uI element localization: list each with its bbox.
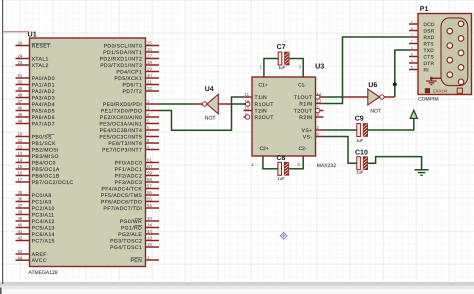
U1 left pin PA7/AD7, pin 44 xyxy=(16,119,55,128)
svg-text:PD5/XCK1: PD5/XCK1 xyxy=(114,76,142,82)
svg-text:PB3/MISO: PB3/MISO xyxy=(32,154,59,160)
svg-text:U3: U3 xyxy=(315,62,324,71)
svg-text:48: 48 xyxy=(17,93,22,98)
svg-text:XTAL1: XTAL1 xyxy=(32,56,49,62)
svg-text:1uF: 1uF xyxy=(356,169,363,174)
svg-text:8: 8 xyxy=(411,53,413,57)
svg-text:PC6/A14: PC6/A14 xyxy=(32,232,55,238)
U3 pin T2OUT, pin 7, inverted bubble xyxy=(294,106,324,115)
U1 right pin PF5/ADC5/TMS, pin 56 xyxy=(101,190,159,199)
svg-text:1uF: 1uF xyxy=(278,176,285,181)
U1 left pin PC2/A10, pin 37 xyxy=(16,203,55,212)
svg-text:55: 55 xyxy=(147,197,152,202)
U1 right pin PEN, pin 1 xyxy=(131,255,159,264)
node origin marker xyxy=(280,232,287,239)
svg-text:PB2/MOSI: PB2/MOSI xyxy=(32,147,59,153)
U1 left pin PA6/AD6, pin 45 xyxy=(16,112,55,121)
svg-text:PC4/A12: PC4/A12 xyxy=(32,219,55,225)
U1 right pin PD2/RXD1/INT2, pin 27 xyxy=(100,54,159,63)
U1 right pin PE7/ICP3/INT7, pin 9 xyxy=(102,145,159,154)
svg-text:26: 26 xyxy=(147,47,152,52)
svg-text:PA5/AD5: PA5/AD5 xyxy=(32,108,55,114)
svg-text:64: 64 xyxy=(17,255,22,260)
U3 pin T2IN, pin 10 xyxy=(244,106,268,115)
svg-text:C8: C8 xyxy=(276,155,285,162)
svg-text:34: 34 xyxy=(147,223,152,228)
wire artifact top-left xyxy=(3,31,29,33)
svg-text:24: 24 xyxy=(17,54,22,59)
svg-text:PE7/ICP3/INT7: PE7/ICP3/INT7 xyxy=(102,147,142,153)
wire U6 output to P1 TXD xyxy=(384,50,409,97)
U1 left pin PA0/AD0, pin 51 xyxy=(16,73,55,82)
capacitor C9 1uF xyxy=(355,116,368,143)
U1 right pin PE1/TXD0/PDO, pin 3 xyxy=(101,106,159,115)
svg-text:PF5/ADC5/TMS: PF5/ADC5/TMS xyxy=(101,193,143,199)
U1 left pin PB3/MISO, pin 13 xyxy=(16,151,59,160)
wire C8 to C2- xyxy=(289,168,304,170)
U1 right pin PE3/OC3A/AIN1, pin 5 xyxy=(99,119,159,128)
ground symbol right xyxy=(415,170,429,176)
svg-text:R2OUT: R2OUT xyxy=(255,115,274,121)
U3 pin VS-, pin 6 xyxy=(303,132,324,141)
svg-text:R1IN: R1IN xyxy=(299,101,312,107)
svg-text:PC3/A11: PC3/A11 xyxy=(32,212,55,218)
svg-text:U6: U6 xyxy=(368,82,377,89)
svg-text:PE3/OC3A/AIN1: PE3/OC3A/AIN1 xyxy=(99,121,142,127)
U1 right pin PD1/SDA/INT1, pin 26 xyxy=(103,47,159,56)
svg-text:54: 54 xyxy=(147,203,152,208)
svg-text:51: 51 xyxy=(17,73,22,78)
svg-text:10: 10 xyxy=(17,132,22,137)
capacitor C10 1uF xyxy=(355,150,368,175)
svg-text:PE4/OC3B/INT4: PE4/OC3B/INT4 xyxy=(100,128,143,134)
svg-text:19: 19 xyxy=(147,242,152,247)
svg-text:T1IN: T1IN xyxy=(255,95,268,101)
U1 left pin PC1/A9, pin 36 xyxy=(16,197,52,206)
U1 left pin PA5/AD5, pin 46 xyxy=(16,106,55,115)
svg-text:PD6/T1: PD6/T1 xyxy=(123,82,143,88)
U1 right pin PD4/ICP1, pin 29 xyxy=(116,67,159,76)
svg-text:PD7/T2: PD7/T2 xyxy=(123,89,143,95)
svg-text:C2-: C2- xyxy=(299,146,307,152)
svg-text:37: 37 xyxy=(17,203,22,208)
svg-text:PE6/T3/INT6: PE6/T3/INT6 xyxy=(108,141,142,147)
svg-text:47: 47 xyxy=(17,99,22,104)
junction on TXD net xyxy=(393,82,397,86)
svg-text:10: 10 xyxy=(245,106,250,111)
svg-text:TXD: TXD xyxy=(424,48,435,54)
U1 right pin PD5/XCK1, pin 30 xyxy=(114,73,159,82)
U1 right pin PE2/XCK0/AIN0, pin 4 xyxy=(100,112,159,121)
svg-text:39: 39 xyxy=(17,216,22,221)
svg-text:U1: U1 xyxy=(28,30,37,39)
svg-text:27: 27 xyxy=(147,54,152,59)
svg-text:T2IN: T2IN xyxy=(255,108,268,114)
svg-text:U4: U4 xyxy=(205,86,214,93)
svg-text:PC7/A15: PC7/A15 xyxy=(32,238,55,244)
svg-text:PA0/AD0: PA0/AD0 xyxy=(32,76,55,82)
svg-text:ATMEGA128: ATMEGA128 xyxy=(29,270,58,276)
U1 right pin PF4/ADC4/TCK, pin 57 xyxy=(101,184,159,193)
svg-text:PA6/AD6: PA6/AD6 xyxy=(32,115,55,121)
svg-text:35: 35 xyxy=(17,190,22,195)
svg-text:29: 29 xyxy=(147,67,152,72)
svg-text:PB0/SS: PB0/SS xyxy=(32,134,52,140)
NOT gate U6 body xyxy=(368,89,384,105)
U1 left pin PA1/AD1, pin 50 xyxy=(16,80,55,89)
connector P1 body COMPIM xyxy=(418,14,472,95)
P1 DB9 connector face xyxy=(441,18,468,86)
U1 value label ATMEGA128 xyxy=(29,270,58,276)
svg-text:13: 13 xyxy=(17,151,22,156)
U3 pin R2IN, pin 8 xyxy=(299,112,323,121)
U1 right pin PG0/WR, pin 33 xyxy=(120,216,159,225)
U1 right pin PD7/T2, pin 32 xyxy=(123,86,159,95)
svg-text:PB4/OC0: PB4/OC0 xyxy=(32,160,56,166)
svg-text:50: 50 xyxy=(17,80,22,85)
svg-text:1uF: 1uF xyxy=(356,138,363,143)
capacitor C7 1uF xyxy=(277,44,290,70)
svg-text:C1-: C1- xyxy=(298,82,306,88)
op-amp style NOT gate U4 body xyxy=(202,94,218,114)
svg-text:PA2/AD2: PA2/AD2 xyxy=(32,89,55,95)
svg-text:28: 28 xyxy=(147,60,152,65)
svg-text:4: 4 xyxy=(411,59,413,63)
U1 right pin PF2/ADC2, pin 59 xyxy=(115,171,159,180)
svg-text:43: 43 xyxy=(147,229,152,234)
U1 left pin PB6/OC1B, pin 16 xyxy=(16,171,60,180)
svg-text:20: 20 xyxy=(17,41,22,46)
svg-text:T2OUT: T2OUT xyxy=(294,108,313,114)
svg-text:PE2/XCK0/AIN0: PE2/XCK0/AIN0 xyxy=(100,115,142,121)
svg-text:PA4/AD4: PA4/AD4 xyxy=(32,102,55,108)
svg-text:30: 30 xyxy=(147,73,152,78)
svg-text:P1: P1 xyxy=(420,6,429,13)
U3 pin C2-, pin 5 xyxy=(298,146,307,169)
P1 pin DSR, pin 6 xyxy=(409,27,435,35)
U6 value label NOT xyxy=(370,109,382,115)
svg-text:1uF: 1uF xyxy=(278,65,285,70)
U1 right pin PF7/ADC7/TDI, pin 54 xyxy=(103,203,159,212)
svg-text:C7: C7 xyxy=(277,44,286,51)
svg-text:DTR: DTR xyxy=(424,61,435,67)
svg-text:49: 49 xyxy=(17,86,22,91)
wire C9 to VCC power arrow xyxy=(368,119,414,130)
U1 left pin PB0/SS, pin 10 xyxy=(16,132,55,141)
U1 reference designator label xyxy=(28,30,37,39)
U1 right pin PF1/ADC1, pin 60 xyxy=(115,164,159,173)
U1 right pin PG2/ALE, pin 43 xyxy=(118,229,159,238)
svg-text:11: 11 xyxy=(245,92,250,97)
P1 pin RI, pin 9 xyxy=(409,66,429,74)
U1 right pin PG1/RD, pin 34 xyxy=(121,223,159,232)
svg-text:PE0/RXD0/PDI: PE0/RXD0/PDI xyxy=(103,102,142,108)
P1 ERROR indicator xyxy=(425,88,463,94)
svg-text:T1OUT: T1OUT xyxy=(294,95,313,101)
svg-text:12: 12 xyxy=(17,145,22,150)
svg-text:46: 46 xyxy=(17,106,22,111)
svg-text:32: 32 xyxy=(147,86,152,91)
svg-text:58: 58 xyxy=(147,177,152,182)
P1 internal ground symbol xyxy=(426,77,443,85)
U1 left pin PB2/MOSI, pin 12 xyxy=(16,145,59,154)
U1 left pin PC0/A8, pin 35 xyxy=(16,190,52,199)
svg-text:PEN: PEN xyxy=(131,258,143,264)
U3 reference designator label xyxy=(315,62,324,71)
U1 left pin PC5/A13, pin 40 xyxy=(16,223,55,232)
U3 pin C1+, pin 1 xyxy=(259,59,268,89)
U1 left pin XTAL2, pin 23 xyxy=(16,60,49,69)
svg-text:COMPIM: COMPIM xyxy=(418,97,439,103)
P1 value label COMPIM xyxy=(418,97,439,103)
wire C1+ to C7 xyxy=(263,58,278,60)
svg-text:44: 44 xyxy=(17,119,22,124)
P1 pin RTS, pin 7 xyxy=(409,40,434,48)
U1 left pin PC6/A14, pin 41 xyxy=(16,229,55,238)
U1 right pin PD0/SCL/INT0, pin 25 xyxy=(104,41,159,50)
svg-text:16: 16 xyxy=(17,171,22,176)
svg-text:PB6/OC1B: PB6/OC1B xyxy=(32,173,60,179)
svg-text:PG0/WR: PG0/WR xyxy=(120,219,143,225)
U1 left pin PC4/A12, pin 39 xyxy=(16,216,55,225)
U4 value label NOT xyxy=(205,116,217,122)
svg-text:DSR: DSR xyxy=(424,28,435,34)
svg-text:56: 56 xyxy=(147,190,152,195)
svg-text:C10: C10 xyxy=(355,150,368,157)
U6 reference designator label xyxy=(368,82,377,89)
svg-text:AVCC: AVCC xyxy=(32,258,47,264)
wire PE0/RXD0 to U4 output xyxy=(159,103,202,105)
U1 right pin PD3/TXD1/INT3, pin 28 xyxy=(100,60,159,69)
U1 left pin XTAL1, pin 24 xyxy=(16,54,49,63)
svg-text:3: 3 xyxy=(411,46,413,50)
svg-text:17: 17 xyxy=(17,177,22,182)
svg-text:PF1/ADC1: PF1/ADC1 xyxy=(115,167,143,173)
svg-text:9: 9 xyxy=(411,66,413,70)
svg-text:PD2/RXD1/INT2: PD2/RXD1/INT2 xyxy=(100,56,143,62)
power terminal VCC arrow xyxy=(410,110,417,118)
U1 left pin PB7/OC2/OC1C, pin 17 xyxy=(16,177,74,186)
svg-text:13: 13 xyxy=(317,99,322,104)
svg-text:7: 7 xyxy=(411,40,413,44)
U3 pin C1-, pin 3 xyxy=(298,59,306,89)
svg-text:PD4/ICP1: PD4/ICP1 xyxy=(116,69,142,75)
svg-text:15: 15 xyxy=(17,164,22,169)
svg-text:PB1/SCK: PB1/SCK xyxy=(32,141,57,147)
svg-text:PA1/AD1: PA1/AD1 xyxy=(32,82,55,88)
P1 pin TXD, pin 3 xyxy=(409,46,434,54)
P1 pin CTS, pin 8 xyxy=(409,53,434,61)
svg-text:RXD: RXD xyxy=(424,35,435,41)
svg-text:14: 14 xyxy=(17,158,22,163)
U1 right pin PF6/ADC6/TDO, pin 55 xyxy=(101,197,159,206)
U1 left pin PC3/A11, pin 38 xyxy=(16,210,55,219)
svg-text:2: 2 xyxy=(411,33,413,37)
svg-text:PB7/OC2/OC1C: PB7/OC2/OC1C xyxy=(32,180,74,186)
U3 value label MAX232 xyxy=(317,163,336,169)
U3 pin R2OUT, pin 9, inverted bubble xyxy=(244,112,274,121)
U3 pin VS+, pin 2 xyxy=(302,125,324,134)
svg-text:PE5/OC3C/INT5: PE5/OC3C/INT5 xyxy=(99,134,142,140)
U1 right pin PG4/TOSC1, pin 19 xyxy=(110,242,159,251)
svg-text:PG1/RD: PG1/RD xyxy=(121,225,142,231)
svg-text:PC0/A8: PC0/A8 xyxy=(32,193,52,199)
U3 pin C2+, pin 4 xyxy=(251,146,268,169)
U1 left pin PA2/AD2, pin 49 xyxy=(16,86,55,95)
U1 left pin AVCC, pin 64 xyxy=(16,255,47,264)
U1 right pin PE0/RXD0/PDI, pin 2 xyxy=(103,99,159,108)
wire VS+ to C9 xyxy=(324,129,357,131)
svg-text:61: 61 xyxy=(147,158,152,163)
svg-text:45: 45 xyxy=(17,112,22,117)
svg-text:RTS: RTS xyxy=(424,41,434,47)
U3 pin T1OUT, pin 14, inverted bubble xyxy=(294,92,324,101)
U1 right pin PG3/TOSC2, pin 18 xyxy=(110,236,159,245)
capacitor C8 1uF xyxy=(276,155,288,181)
wire T1OUT to U6 input xyxy=(324,96,368,98)
svg-text:23: 23 xyxy=(17,60,22,65)
U1 right pin PF0/ADC0, pin 61 xyxy=(115,158,159,167)
P1 pin DCD, pin 1 xyxy=(409,20,435,28)
svg-text:AREF: AREF xyxy=(32,252,47,258)
svg-text:18: 18 xyxy=(147,236,152,241)
IC U3 body MAX232 xyxy=(252,77,316,156)
U1 left pin PA4/AD4, pin 47 xyxy=(16,99,55,108)
wire C2+ to C8 xyxy=(262,168,278,170)
U1 left pin PB5/OC1A, pin 15 xyxy=(16,164,60,173)
U3 pin R1OUT, pin 12, inverted bubble xyxy=(244,99,274,108)
wire U4 input to R1OUT xyxy=(218,103,245,105)
svg-text:XTAL2: XTAL2 xyxy=(32,63,49,69)
svg-text:PG3/TOSC2: PG3/TOSC2 xyxy=(110,238,142,244)
svg-text:CTS: CTS xyxy=(424,54,435,60)
U1 left pin PB4/OC0, pin 14 xyxy=(16,158,56,167)
svg-text:PA3/AD3: PA3/AD3 xyxy=(32,95,55,101)
svg-text:PA7/AD7: PA7/AD7 xyxy=(32,121,55,127)
svg-text:C1+: C1+ xyxy=(259,82,268,88)
svg-text:PD3/TXD1/INT3: PD3/TXD1/INT3 xyxy=(100,63,142,69)
U4 reference designator label xyxy=(205,86,214,93)
svg-text:NOT: NOT xyxy=(370,109,382,115)
IC U1 body xyxy=(30,38,146,267)
svg-text:PD1/SDA/INT1: PD1/SDA/INT1 xyxy=(103,50,142,56)
svg-text:PB5/OC1A: PB5/OC1A xyxy=(32,167,60,173)
svg-text:PD0/SCL/INT0: PD0/SCL/INT0 xyxy=(104,43,143,49)
svg-text:36: 36 xyxy=(17,197,22,202)
P1 reference designator label xyxy=(420,6,429,13)
svg-text:60: 60 xyxy=(147,164,152,169)
U1 left pin AREF, pin 62 xyxy=(16,249,47,258)
svg-text:VS-: VS- xyxy=(303,134,313,140)
svg-text:40: 40 xyxy=(17,223,22,228)
U1 right pin PE4/OC3B/INT4, pin 6 xyxy=(100,125,159,134)
svg-text:PF2/ADC2: PF2/ADC2 xyxy=(115,173,143,179)
svg-text:PF7/ADC7/TDI: PF7/ADC7/TDI xyxy=(103,206,142,212)
svg-text:14: 14 xyxy=(317,92,322,97)
U1 right pin PE6/T3/INT6, pin 8 xyxy=(108,138,159,147)
svg-text:6: 6 xyxy=(411,27,413,31)
svg-text:PC5/A13: PC5/A13 xyxy=(32,225,55,231)
svg-text:42: 42 xyxy=(17,236,22,241)
svg-text:PG4/TOSC1: PG4/TOSC1 xyxy=(110,245,142,251)
svg-text:PF6/ADC6/TDO: PF6/ADC6/TDO xyxy=(101,199,142,205)
svg-text:PF0/ADC0: PF0/ADC0 xyxy=(115,160,143,166)
wire P1 RXD to R1IN xyxy=(324,37,410,104)
svg-text:DCD: DCD xyxy=(424,22,436,28)
U1 left pin PA3/AD3, pin 48 xyxy=(16,93,55,102)
svg-text:41: 41 xyxy=(17,229,22,234)
svg-text:MAX232: MAX232 xyxy=(317,163,336,169)
svg-text:R1OUT: R1OUT xyxy=(255,102,274,108)
svg-text:31: 31 xyxy=(147,80,152,85)
svg-text:PC2/A10: PC2/A10 xyxy=(32,206,55,212)
svg-text:VS+: VS+ xyxy=(302,128,313,134)
svg-text:33: 33 xyxy=(147,216,152,221)
svg-text:PG2/ALE: PG2/ALE xyxy=(118,232,142,238)
svg-text:R2IN: R2IN xyxy=(299,115,312,121)
svg-text:62: 62 xyxy=(17,249,22,254)
svg-text:C9: C9 xyxy=(355,116,364,123)
svg-text:PE1/TXD0/PDO: PE1/TXD0/PDO xyxy=(101,108,142,114)
wire VS- to C10 xyxy=(324,137,357,164)
svg-text:59: 59 xyxy=(147,171,152,176)
svg-text:RI: RI xyxy=(424,67,429,73)
U1 left pin PC7/A15, pin 42 xyxy=(16,236,55,245)
svg-text:11: 11 xyxy=(18,138,23,143)
P1 pin DTR, pin 4 xyxy=(409,59,434,67)
U1 left pin RESET, pin 20 xyxy=(16,41,51,50)
U1 left pin PB1/SCK, pin 11 xyxy=(16,138,57,147)
svg-text:NOT: NOT xyxy=(205,116,217,122)
svg-text:ERROR: ERROR xyxy=(433,89,448,94)
svg-text:PC1/A9: PC1/A9 xyxy=(32,199,52,205)
svg-text:57: 57 xyxy=(147,184,152,189)
svg-text:25: 25 xyxy=(147,41,152,46)
svg-text:38: 38 xyxy=(17,210,22,215)
U1 right pin PD6/T1, pin 31 xyxy=(123,80,159,89)
svg-text:RESET: RESET xyxy=(32,43,51,49)
svg-text:C2+: C2+ xyxy=(260,146,269,152)
U1 right pin PF3/ADC3, pin 58 xyxy=(115,177,159,186)
wire C7 to C1- xyxy=(289,58,304,60)
U3 pin T1IN, pin 11 xyxy=(244,92,268,101)
wire PE1/TXD0 to T1IN xyxy=(159,97,244,130)
U1 right pin PE5/OC3C/INT5, pin 7 xyxy=(99,132,159,141)
U3 pin R1IN, pin 13 xyxy=(299,99,323,108)
P1 pin RXD, pin 2 xyxy=(409,33,435,41)
wire C10 to ground xyxy=(368,157,422,170)
svg-text:PF3/ADC3: PF3/ADC3 xyxy=(115,180,143,186)
svg-text:1: 1 xyxy=(411,20,413,24)
svg-text:PF4/ADC4/TCK: PF4/ADC4/TCK xyxy=(101,186,142,192)
